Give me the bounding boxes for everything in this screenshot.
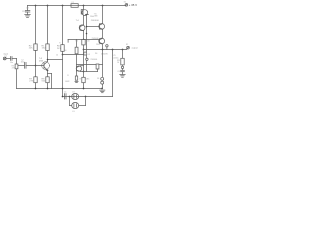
node speaker left: [69, 96, 71, 98]
resistor Tr4 emitter tail: [75, 71, 78, 83]
diode D3: [101, 81, 104, 84]
svg-text:Tr: Tr: [59, 42, 61, 45]
svg-text:C6: C6: [117, 71, 119, 73]
wire column x102 upper: [102, 6, 104, 24]
ground (zobel): [120, 74, 126, 77]
node K1 label: [124, 2, 137, 8]
svg-text:K2: K2: [126, 44, 128, 46]
wire x83 to 0V: [83, 83, 85, 89]
wire x76 base column: [76, 54, 78, 66]
svg-text:100R: 100R: [65, 81, 70, 83]
transistor Tr6 output lower: [99, 38, 105, 44]
fuse F1 in rail: [71, 4, 78, 8]
node Tr4 emitter: [83, 71, 85, 73]
wire input corner: [16, 59, 18, 65]
wire input to C2: [18, 65, 25, 67]
svg-text:10u: 10u: [10, 62, 13, 64]
svg-text:2SB: 2SB: [96, 44, 100, 46]
wire base feed: [77, 64, 97, 66]
wire column x62 lower: [62, 51, 64, 96]
svg-text:56: 56: [64, 50, 66, 52]
svg-text:R: R: [67, 75, 69, 77]
wire column x35 upper: [35, 6, 37, 44]
svg-text:2SB476: 2SB476: [101, 53, 108, 55]
wire column x47 lower: [47, 83, 49, 89]
svg-text:D6: D6: [95, 53, 97, 55]
wire top supply rail: [28, 5, 126, 7]
capacitor C6 zobel: [121, 65, 125, 75]
svg-text:F1: F1: [72, 2, 74, 4]
wire base Tr5: [86, 26, 100, 28]
svg-text:output: output: [132, 47, 138, 50]
wire emitter feedback: [84, 71, 98, 73]
svg-text:D1: D1: [97, 78, 99, 80]
capacitor C8 bypass: [25, 6, 30, 15]
preset bias square: [84, 52, 87, 55]
node zobel top: [122, 49, 124, 51]
svg-text:100u: 100u: [21, 61, 25, 63]
wire column x35 lower: [35, 83, 37, 89]
resistor R9 vertical: [96, 64, 102, 72]
svg-text:10: 10: [117, 62, 119, 64]
resistor R2: [34, 44, 37, 51]
wire column x47 upper: [47, 6, 49, 44]
wire column x112: [112, 50, 114, 97]
wire column x47 collector: [47, 51, 49, 62]
ground (0V rail): [100, 90, 105, 93]
capacitor C4 speaker line: [65, 94, 67, 99]
wire base Tr6: [84, 39, 100, 41]
svg-text:1k: 1k: [56, 55, 58, 57]
svg-text:K1: K1: [124, 2, 126, 4]
wire x102 lower: [102, 50, 104, 78]
transistor Tr3: [42, 61, 50, 70]
svg-text:R: R: [80, 79, 82, 81]
transistor Tr1 driver upper: [79, 25, 85, 31]
node 0V junctions: [35, 88, 85, 90]
resistor R1: [46, 44, 49, 51]
wire input shunt to 0V: [16, 69, 18, 89]
node feedback junction: [35, 65, 37, 67]
svg-text:220n: 220n: [22, 11, 26, 13]
wire zobel: [122, 50, 124, 59]
svg-text:22K: 22K: [29, 48, 33, 50]
node VAS collector: [62, 54, 64, 56]
svg-text:D5: D5: [88, 54, 90, 56]
speaker LS2: [72, 102, 79, 108]
resistor R7: [34, 77, 37, 83]
resistor R8: [46, 77, 49, 83]
resistor R4: [82, 40, 85, 45]
wire x83 lower: [83, 72, 85, 78]
svg-text:+ 35 V: + 35 V: [129, 3, 138, 7]
svg-text:2SB: 2SB: [94, 16, 98, 18]
resistor R10: [82, 77, 85, 82]
wire 0V rail: [17, 88, 103, 90]
wire branch collector to VAS: [47, 59, 63, 61]
svg-text:Tr1: Tr1: [76, 19, 80, 22]
wire output line: [84, 49, 127, 51]
node rail junctions: [35, 5, 104, 7]
wire bias column mid: [86, 55, 88, 72]
svg-text:2SB: 2SB: [39, 60, 44, 62]
resistor R11 zobel: [121, 58, 124, 65]
resistor R3 input: [15, 64, 18, 69]
wire x83 mid: [83, 50, 85, 72]
wire x76 top: [68, 40, 83, 48]
terminal +35V: [125, 4, 128, 7]
node output mid: [102, 49, 104, 51]
terminal output: [127, 46, 130, 49]
wire column x62 upper: [62, 6, 64, 45]
wire column x35 mid: [35, 51, 37, 77]
speaker LS1: [72, 93, 79, 99]
wire speaker alt loop: [70, 97, 86, 106]
wire bias column top: [85, 14, 88, 52]
wire C2 to Tr3 base: [26, 65, 44, 67]
wire to output terminal: [125, 48, 128, 51]
node speaker line left: [62, 96, 64, 98]
wire VAS collector to bias: [63, 54, 84, 56]
ground (bypass cap): [25, 15, 31, 18]
transistor Tr5 output upper: [99, 24, 105, 30]
wire Tr6 to output: [102, 44, 104, 50]
test point marker: [106, 45, 108, 50]
node output left: [83, 49, 85, 51]
svg-text:560: 560: [42, 81, 46, 83]
wire Tr1 emitter down: [83, 31, 85, 40]
svg-text:27K: 27K: [29, 81, 33, 83]
svg-text:2SD606: 2SD606: [91, 20, 100, 22]
wire Tr3 emitter: [47, 70, 52, 89]
svg-text:2SD606: 2SD606: [90, 59, 97, 61]
terminal input: [3, 57, 6, 60]
capacitor C1 input: [6, 57, 16, 61]
diode D2: [101, 77, 104, 80]
capacitor C2: [25, 62, 27, 68]
svg-text:C8: C8: [26, 8, 28, 10]
node 0V end: [101, 88, 103, 90]
node output feedback: [112, 49, 114, 51]
svg-text:C4: C4: [64, 92, 66, 94]
transistor Tr2 top current source: [81, 6, 88, 26]
resistor R5 column x76: [75, 47, 78, 54]
transistor Tr4 driver lower: [76, 66, 83, 72]
svg-text:C1: C1: [5, 56, 7, 58]
wire x102 to 0V: [102, 84, 104, 88]
node R4 top: [83, 39, 85, 41]
node speaker right: [85, 96, 87, 98]
wire between output transistors: [102, 29, 104, 38]
svg-text:R4: R4: [75, 41, 77, 43]
svg-text:100: 100: [86, 41, 89, 43]
wire x83 to output node: [83, 45, 85, 50]
resistor R6: [61, 45, 64, 52]
svg-text:0R5: 0R5: [86, 79, 89, 81]
svg-text:LS: LS: [72, 111, 75, 113]
wire lower speaker line: [63, 96, 113, 98]
